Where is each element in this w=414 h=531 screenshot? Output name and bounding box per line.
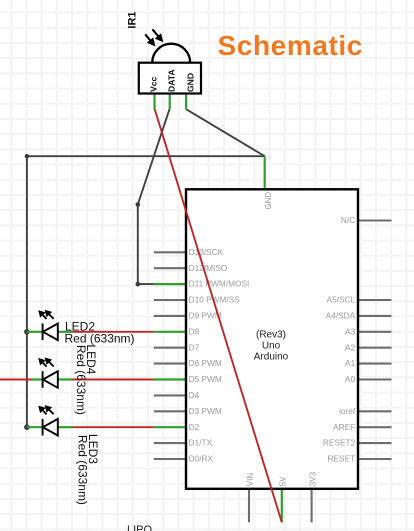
Arduino left pin stub D4 [154,394,186,396]
LED3 label (rotated) [76,434,100,505]
svg-text:AREF: AREF [333,422,355,432]
Arduino right pin stub A1 [358,363,392,365]
Arduino right pin labels [323,215,356,464]
wire: red wire LED4 anode to Arduino D5 stub [73,379,154,381]
wire: IR1 DATA net vertical segment [137,205,139,285]
svg-text:D6 PWM: D6 PWM [189,358,222,368]
LED4 pin stubs (green) [32,378,73,380]
svg-text:Arduino: Arduino [254,351,289,362]
svg-text:VIN: VIN [246,473,255,487]
IR1 incoming light arrows [145,29,162,44]
wire: red wire LED3 anode to Arduino D2 stub [73,426,154,428]
wire: red wire IR1 Vcc to Arduino 5V (drawn over body) [155,109,282,523]
Arduino left pin stub D5 (green, connected) [154,378,186,380]
svg-text:GND: GND [264,192,273,210]
Arduino center label (Rev3) Uno Arduino [254,329,289,362]
svg-text:D13/SCK: D13/SCK [189,247,224,257]
Arduino right pin stub A5/SCL [358,299,392,301]
LED4 label (rotated) [74,344,98,415]
svg-text:Red (633nm): Red (633nm) [65,332,135,346]
Arduino right pin stub RESET2 [358,442,392,444]
junction dot: DATA bend lower [136,282,141,287]
Arduino left pin stub D0/RX [154,458,186,460]
svg-text:D5 PWM: D5 PWM [189,374,222,384]
svg-text:RESET: RESET [328,454,356,464]
Arduino left pin stub D6 [154,363,186,365]
LED3 symbol (cathode bar + triangle) [43,419,58,436]
Arduino left pin stub D2 (green, connected) [154,426,186,428]
svg-text:5V: 5V [279,476,288,486]
wire: IR1 DATA to Arduino D11 (segment 1, diagonal) [138,109,170,205]
wire: LED4 cathode red wire exiting left edge [0,379,32,381]
Arduino left pin labels [189,247,250,464]
Arduino left pin stub D12/MISO [154,267,186,269]
Arduino right pin stub A3 [358,331,392,333]
svg-text:(Rev3): (Rev3) [256,329,286,340]
Arduino bottom pin stub 3V3 [311,489,313,523]
Arduino right pin stub A4/SDA [358,315,392,317]
LED2 emission arrows [40,311,54,319]
wire: GND net vertical run down to LEDs [26,156,28,427]
LED2 label [65,319,135,345]
IR1 dome [152,44,190,63]
svg-text:Uno: Uno [262,340,281,351]
svg-text:A4/SDA: A4/SDA [326,311,356,321]
Arduino right pin stub RESET [358,458,392,460]
Arduino left pin stub D3 [154,410,186,412]
wire: red wire LED2 anode to Arduino D8 stub [73,331,154,333]
svg-text:D4: D4 [189,390,200,400]
LED4 symbol (cathode bar + triangle) [43,371,58,388]
wire: GND net horizontal run [27,155,265,157]
svg-text:D3 PWM: D3 PWM [189,406,222,416]
Arduino bottom pin stub 5V (green, connected) [281,489,283,523]
svg-text:RESET2: RESET2 [323,438,356,448]
Arduino bottom pin stub VIN [248,489,250,523]
svg-text:ioref: ioref [339,406,356,416]
svg-text:N/C: N/C [341,215,355,225]
svg-text:D8: D8 [189,326,200,336]
svg-text:3V3: 3V3 [308,471,317,486]
Arduino Uno body rectangle [186,189,358,489]
svg-text:D11 PWM/MOSI: D11 PWM/MOSI [189,279,250,289]
svg-text:D1/TX: D1/TX [189,438,213,448]
svg-text:Vcc: Vcc [148,76,158,92]
svg-text:D2: D2 [189,422,200,432]
svg-text:A5/SCL: A5/SCL [327,295,356,305]
wire: IR1 DATA net horizontal segment to D11 stub [138,283,154,285]
svg-text:IR1: IR1 [127,11,139,28]
svg-text:LIPO: LIPO [127,524,153,531]
svg-text:D12/MISO: D12/MISO [189,263,228,273]
Arduino left pin stub D7 [154,347,186,349]
LED3 pin stubs (green) [27,426,73,428]
Arduino left pin stub D9 [154,315,186,317]
svg-text:D0/RX: D0/RX [189,454,214,464]
junction dot: DATA bend upper [136,202,141,207]
Arduino right pin stub A0 [358,378,392,380]
LED2 symbol (cathode bar + triangle) [43,324,58,341]
Arduino left pin stub D8 (green, connected) [154,331,186,333]
Arduino left pin stub D1/TX [154,442,186,444]
svg-text:A3: A3 [345,326,356,336]
svg-text:GND: GND [185,73,195,92]
svg-text:D7: D7 [189,342,200,352]
LED2 pin stubs (green) [27,331,73,333]
LED3 emission arrows [40,406,54,414]
Arduino left pin stub D10 [154,299,186,301]
svg-text:Red (633nm): Red (633nm) [74,345,88,415]
Arduino left pin stub D11 (green, connected) [154,283,186,285]
Arduino top pin stub GND (green, connected) [264,156,266,189]
Arduino right pin stub AREF [358,426,392,428]
wire: IR1 GND diagonal to Arduino GND stub [186,109,265,156]
Arduino right pin stub A2 [358,347,392,349]
junction dot: GND at LED3 [24,424,30,430]
svg-text:A1: A1 [345,358,356,368]
svg-text:Red (633nm): Red (633nm) [76,435,90,505]
junction dot: GND at LED2 [24,329,30,335]
Arduino right pin stub ioref [358,410,392,412]
svg-text:A2: A2 [345,342,356,352]
svg-text:A0: A0 [345,374,356,384]
Arduino right pin stub N/C [358,219,392,221]
svg-text:Schematic: Schematic [218,30,363,61]
IR1 body rectangle [139,63,201,94]
junction dot: GND corner top-left [25,154,29,158]
Arduino left pin stub D13/SCK [154,251,186,253]
svg-text:DATA: DATA [166,69,176,92]
LED4 emission arrows [40,359,54,367]
IR1 pin stubs (green) [155,94,187,110]
